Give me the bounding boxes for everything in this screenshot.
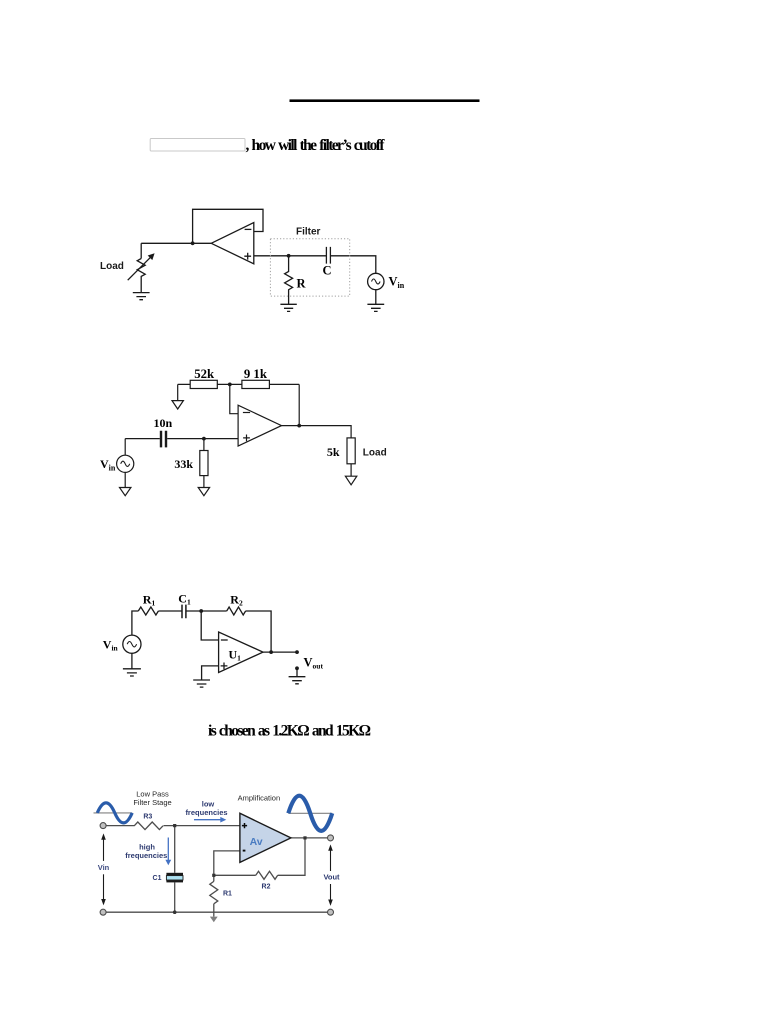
svg-text:33k: 33k xyxy=(174,457,193,471)
node output a xyxy=(269,650,273,654)
svg-text:Av: Av xyxy=(250,836,263,848)
node R1 top xyxy=(212,874,215,877)
svg-text:Amplification: Amplification xyxy=(238,794,281,803)
sine wave right xyxy=(288,812,332,814)
resistor R3 zigzag xyxy=(134,822,163,830)
svg-text:frequencies: frequencies xyxy=(125,851,167,860)
node top xyxy=(228,383,232,387)
node input xyxy=(202,437,206,441)
node after C1 xyxy=(199,609,203,613)
svg-text:Vin: Vin xyxy=(98,863,110,872)
wire noninverting input xyxy=(254,256,376,273)
op-amp triangle xyxy=(238,405,281,446)
resistor R2 zigzag xyxy=(227,607,246,615)
svg-text:10n: 10n xyxy=(153,416,172,430)
minus label xyxy=(221,639,228,641)
source Vin circle xyxy=(124,439,126,456)
svg-text:Vout: Vout xyxy=(323,873,340,882)
node filter input xyxy=(287,254,291,258)
svg-text:is chosen as 1.2KΩ and 15KΩ: is chosen as 1.2KΩ and 15KΩ xyxy=(208,723,371,740)
wire output xyxy=(282,426,352,438)
arrow low frequencies xyxy=(194,819,221,821)
svg-text:Vin: Vin xyxy=(103,638,119,653)
arrow Vout xyxy=(328,844,333,906)
wire node to C1 xyxy=(174,826,176,873)
svg-text:C: C xyxy=(323,264,332,278)
ground triangle left xyxy=(172,401,183,409)
plus label xyxy=(242,823,247,828)
minus label xyxy=(243,412,250,414)
op-amp U1 triangle xyxy=(211,223,254,264)
wire to C1 xyxy=(158,610,181,612)
svg-text:C1: C1 xyxy=(178,592,191,607)
svg-text:Vin: Vin xyxy=(389,275,405,291)
wire inverting input xyxy=(214,851,240,875)
wire top rail xyxy=(178,383,300,385)
svg-text:52k: 52k xyxy=(194,367,215,381)
terminal top right xyxy=(328,835,334,841)
plus label xyxy=(243,435,250,442)
node output xyxy=(191,241,195,245)
op-amp U1 triangle xyxy=(219,632,263,673)
arrow Vin xyxy=(101,833,106,905)
minus label xyxy=(243,850,246,852)
filter dotted box xyxy=(270,239,349,296)
resistor R1 zigzag xyxy=(210,881,218,903)
resistor 5k xyxy=(347,438,355,464)
terminal bottom right xyxy=(328,909,334,915)
resistor R1 zigzag xyxy=(138,607,158,615)
capacitor C1 dielectric xyxy=(166,876,183,880)
svg-text:R2: R2 xyxy=(230,593,243,608)
load arrow xyxy=(128,256,152,280)
terminal top left xyxy=(100,823,106,829)
wire output xyxy=(291,837,327,839)
capacitor 10n plates xyxy=(161,431,166,448)
wire inverting input xyxy=(230,384,238,413)
svg-text:R1: R1 xyxy=(223,891,232,898)
horizontal rule xyxy=(290,99,480,102)
svg-text:, how will the filter’s cutoff: , how will the filter’s cutoff xyxy=(246,137,386,154)
resistor 52k xyxy=(190,380,217,388)
variable resistor Load xyxy=(137,259,145,293)
resistor R zigzag xyxy=(285,256,293,304)
svg-text:5k: 5k xyxy=(327,445,340,459)
wire top rail xyxy=(132,611,138,635)
ground under R xyxy=(280,304,296,311)
wire below Vin xyxy=(124,472,126,487)
wire R1 bottom + ground stub xyxy=(213,904,215,917)
svg-text:Load: Load xyxy=(363,448,387,459)
wire feedback right xyxy=(298,384,300,425)
wire below Vin xyxy=(131,653,133,669)
arrow high frequencies xyxy=(167,838,169,861)
plus label xyxy=(221,663,228,670)
svg-text:Load: Load xyxy=(100,261,124,272)
wire C1 to node xyxy=(186,610,226,612)
wire C1 to rail xyxy=(174,882,176,912)
wire top rail xyxy=(106,825,240,827)
ground under Vin xyxy=(123,669,141,676)
wire noninverting to ground xyxy=(202,666,219,680)
bottom rail xyxy=(106,911,327,913)
ground under load xyxy=(133,293,150,300)
svg-text:9 1k: 9 1k xyxy=(244,367,268,381)
ground triangle Vin xyxy=(120,488,131,496)
wire left drop to ground xyxy=(177,384,179,400)
source Vin circle xyxy=(368,273,384,289)
wire inverting input xyxy=(201,611,218,640)
ground arrow under R1 xyxy=(210,917,218,923)
node C1 rail xyxy=(173,910,177,914)
svg-text:C1: C1 xyxy=(153,875,162,882)
ground triangle 33k xyxy=(198,488,209,496)
resistor R2 zigzag xyxy=(256,871,278,879)
wire output to load xyxy=(141,242,211,244)
capacitor C1 plates xyxy=(182,605,186,619)
svg-text:Filter Stage: Filter Stage xyxy=(133,798,171,807)
ground under Vin xyxy=(367,304,384,311)
svg-text:frequencies: frequencies xyxy=(185,808,227,817)
wire below Vin xyxy=(375,290,377,305)
node after R3 xyxy=(173,824,176,827)
svg-text:Vin: Vin xyxy=(100,457,116,473)
node ground stub xyxy=(295,666,299,670)
op-amp Av triangle xyxy=(240,813,291,862)
node output xyxy=(297,424,301,428)
wire input rail xyxy=(125,438,238,440)
node output b xyxy=(295,650,299,654)
capacitor C1 plate bottom xyxy=(166,880,183,882)
wire below 33k xyxy=(203,439,205,488)
plus label xyxy=(244,253,251,260)
resistor 33k xyxy=(200,451,208,476)
node output xyxy=(303,836,306,839)
ground under plus xyxy=(193,680,210,687)
svg-text:R: R xyxy=(297,277,307,291)
svg-text:R3: R3 xyxy=(143,813,152,820)
svg-text:Filter: Filter xyxy=(296,227,321,238)
sine wave left xyxy=(94,812,133,814)
ground under Vout xyxy=(289,668,306,684)
wire output xyxy=(263,651,297,653)
svg-text:R1: R1 xyxy=(143,593,156,608)
wire R2 to output xyxy=(246,611,272,652)
svg-text:R2: R2 xyxy=(262,884,271,891)
wire R1 top xyxy=(213,875,215,881)
source Vin circle xyxy=(123,635,141,653)
wire below 5k xyxy=(350,464,352,476)
capacitor C1 plate top xyxy=(166,873,183,876)
minus label xyxy=(245,228,252,230)
wire feedback loop xyxy=(193,209,263,243)
input text box xyxy=(150,139,245,152)
load wire xyxy=(140,243,142,258)
ground triangle 5k xyxy=(345,476,356,485)
svg-text:Vout: Vout xyxy=(304,656,324,671)
feedback wire R2 xyxy=(214,838,305,875)
capacitor C plates xyxy=(326,247,330,264)
resistor 91k xyxy=(242,380,270,388)
terminal bottom left xyxy=(100,909,106,915)
